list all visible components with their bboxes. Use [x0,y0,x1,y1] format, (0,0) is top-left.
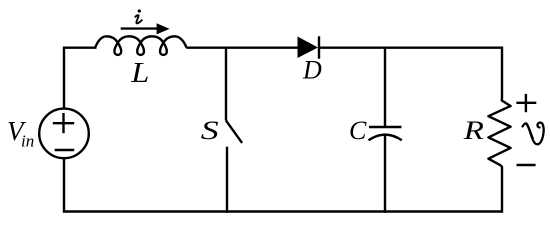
bottom wire right section [385,210,502,212]
wire top-left horizontal segment [64,48,97,109]
voltage label v (script) [523,123,544,145]
svg-text:S: S [201,116,219,145]
svg-text:C: C [349,116,367,145]
plus sign right [516,94,536,112]
switch S upper wire [225,47,227,121]
capacitor C bottom wire [384,135,386,213]
wire inductor to diode [186,47,297,49]
diode D [298,36,320,58]
svg-text:D: D [302,56,322,85]
svg-text:in: in [21,131,34,150]
bottom wire [227,210,386,212]
wire resistor to bottom-right corner [501,165,502,212]
switch S blade [226,121,242,143]
inductor L coil [95,36,186,55]
minus sign right [517,164,536,166]
resistor R zigzag [488,99,510,165]
switch S lower wire [226,147,228,213]
wire diode to top-right corner [319,47,502,49]
svg-text:L: L [130,57,149,88]
wire source bottom to bottom-left corner [64,158,227,211]
current arrow i [121,23,170,34]
label i [135,9,143,23]
capacitor C plates [369,127,402,140]
svg-text:R: R [463,117,484,145]
wire top-right corner down to resistor [501,47,503,100]
voltage source Vin circle [39,109,89,159]
capacitor C top wire [384,47,386,128]
minus sign inside source [55,149,74,151]
plus sign inside source [53,113,74,133]
